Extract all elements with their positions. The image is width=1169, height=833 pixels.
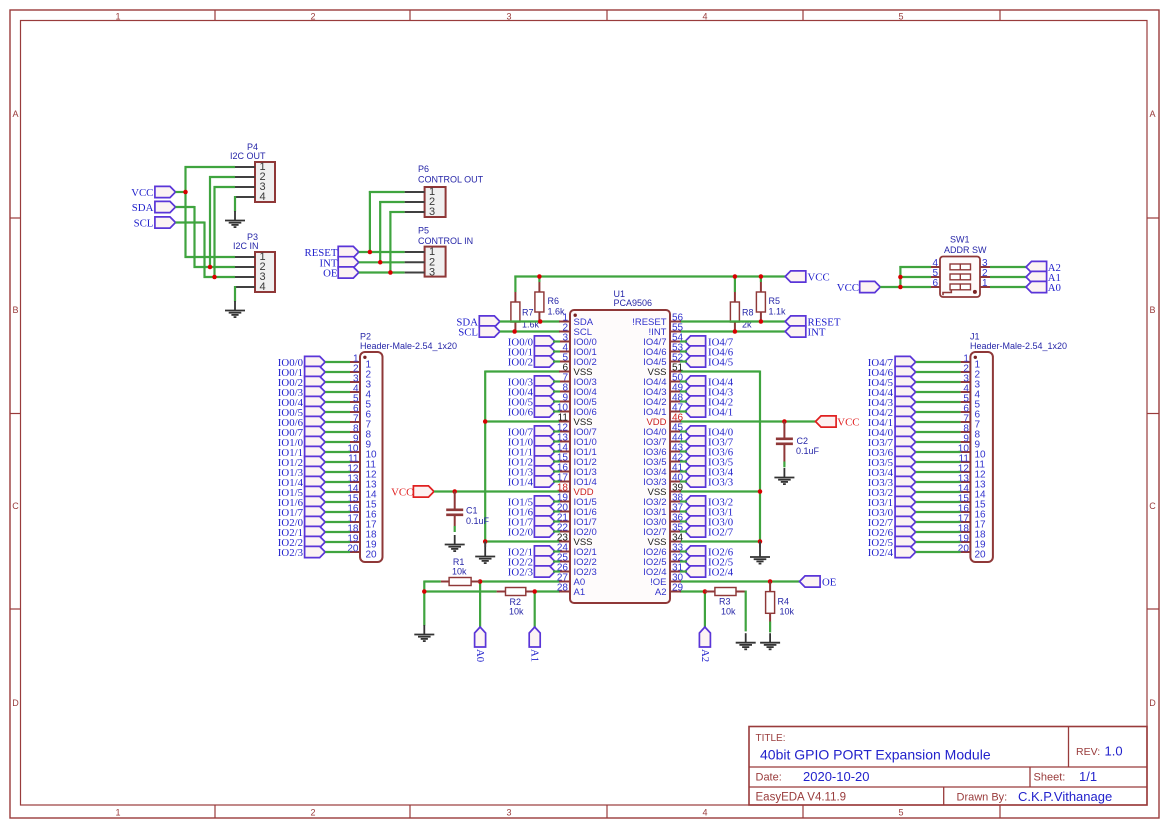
svg-text:2: 2	[310, 12, 315, 22]
net flag IO3/3 (J1)	[868, 476, 916, 489]
svg-text:4: 4	[702, 12, 707, 22]
svg-text:10k: 10k	[452, 567, 467, 577]
resistor R6 1.6k	[535, 282, 565, 322]
wire IO3/0	[916, 511, 961, 513]
ground under P3	[225, 301, 245, 317]
U1 pin 3 (IO0/0)	[559, 333, 597, 348]
svg-text:A2: A2	[655, 587, 667, 598]
U1 pin 5 (IO0/2)	[559, 353, 597, 368]
capacitor C2 0.1uF	[776, 422, 820, 462]
wire VCC to U1 pin18	[434, 490, 560, 492]
svg-text:3: 3	[429, 267, 435, 279]
U1 pin 45 (IO4/0)	[643, 423, 683, 438]
wire IO2/2	[325, 541, 350, 543]
svg-text:R8: R8	[742, 308, 754, 318]
junction VSS bus pin11	[483, 419, 488, 424]
P2 pin 12	[347, 464, 377, 481]
net flag IO3/5 (J1)	[868, 456, 916, 469]
svg-text:IO2/4: IO2/4	[708, 567, 734, 579]
wire IO0/7	[325, 431, 350, 433]
U1 pin 18 (VDD)	[557, 483, 594, 498]
U1 pin 9 (IO0/5)	[559, 393, 597, 408]
wire IO0/4	[553, 390, 560, 392]
ground under P4	[225, 211, 245, 227]
wire IO4/6	[916, 371, 961, 373]
J1 pin 16	[958, 504, 986, 521]
net flag IO1/4 (P2)	[278, 476, 325, 489]
svg-text:1: 1	[115, 808, 120, 818]
wire SW1 to A1	[990, 276, 1026, 278]
wire IO3/2	[680, 500, 687, 502]
junction R1-left/A1line	[422, 589, 427, 594]
U1 pin 17 (IO1/4)	[557, 473, 597, 488]
connector P6 CONTROL OUT	[418, 164, 484, 217]
wire IO2/2	[553, 560, 560, 562]
wire IO0/6	[325, 421, 350, 423]
U1 pin 20 (IO1/6)	[557, 503, 597, 518]
P4 pin 1	[235, 161, 266, 173]
wire IO1/7	[325, 511, 350, 513]
svg-text:INT: INT	[808, 327, 826, 339]
svg-text:A: A	[1149, 109, 1155, 119]
wire VCC net	[176, 166, 236, 258]
ground under C1	[445, 535, 465, 551]
svg-text:C.K.P.Vithanage: C.K.P.Vithanage	[1018, 789, 1112, 804]
svg-text:A1: A1	[529, 649, 541, 662]
U1 pin 36 (IO3/0)	[643, 513, 683, 528]
P4 pin 3	[235, 181, 266, 193]
wire IO4/4	[916, 391, 961, 393]
J1 pin 7	[961, 414, 981, 431]
net flag IO3/0 (J1)	[868, 506, 916, 519]
net flag IO4/6 (J1)	[868, 366, 916, 379]
wire IO2/6	[916, 531, 961, 533]
junction VSS bus pin23	[483, 539, 488, 544]
wire IO1/1	[325, 451, 350, 453]
net flag IO1/5 (P2)	[278, 486, 325, 499]
U1 pin 50 (IO4/4)	[643, 373, 683, 388]
net flag A2	[1026, 261, 1061, 274]
net flag IO4/1 (J1)	[868, 416, 916, 429]
junction VCC rail at R8	[733, 274, 738, 279]
net flag IO0/3 (P2)	[278, 386, 325, 399]
wire SDA to U1 pin1	[500, 320, 560, 322]
net flag A1	[1026, 271, 1061, 284]
U1 pin 16 (IO1/3)	[557, 463, 597, 478]
net flag IO1/5 (U1 left)	[508, 496, 555, 509]
U1 pin 53 (IO4/6)	[643, 343, 683, 358]
wire IO3/7	[680, 440, 687, 442]
net flag IO0/3 (U1 left)	[508, 376, 555, 389]
wire IO1/0	[325, 441, 350, 443]
wire OE net	[359, 211, 405, 274]
J1 pin 5	[961, 394, 981, 411]
IC U1 PCA9506	[570, 289, 670, 603]
net flag IO1/3 (U1 left)	[508, 466, 555, 479]
P3 pin 3	[235, 271, 266, 283]
net flag IO0/4 (P2)	[278, 396, 325, 409]
wire C2 to ground	[783, 462, 785, 468]
wire IO2/3	[553, 570, 560, 572]
svg-text:28: 28	[557, 583, 569, 594]
wire SW1 to A2	[990, 266, 1026, 268]
wire IO0/7	[553, 430, 560, 432]
svg-text:Drawn By:: Drawn By:	[957, 792, 1008, 804]
U1 pin 14 (IO1/1)	[557, 443, 597, 458]
wire IO1/5	[553, 500, 560, 502]
wire IO4/7	[680, 340, 687, 342]
junction VCC rail at R6	[537, 274, 542, 279]
net flag IO3/7 (J1)	[868, 436, 916, 449]
net flag IO0/0 (U1 left)	[508, 336, 555, 349]
wire IO0/6	[553, 410, 560, 412]
svg-text:SW1: SW1	[950, 235, 970, 245]
net flag IO2/2 (P2)	[278, 536, 325, 549]
net flag IO3/2 (U1 right)	[685, 496, 733, 509]
wire IO0/4	[325, 401, 350, 403]
net flag A0	[1026, 281, 1061, 294]
svg-text:5: 5	[898, 808, 903, 818]
svg-text:40bit GPIO PORT Expansion Modu: 40bit GPIO PORT Expansion Module	[760, 747, 991, 763]
U1 pin 49 (IO4/3)	[643, 383, 683, 398]
net flag IO0/7 (P2)	[278, 426, 325, 439]
wire IO4/3	[916, 401, 961, 403]
wire IO3/7	[916, 441, 961, 443]
net flag IO2/7 (J1)	[868, 516, 916, 529]
net flag IO3/0 (U1 right)	[685, 516, 733, 529]
net flag IO3/4 (U1 right)	[685, 466, 734, 479]
wire IO2/1	[325, 531, 350, 533]
wire SCL net	[176, 186, 236, 278]
J1 pin 10	[958, 444, 986, 461]
J1 pin 11	[959, 454, 986, 471]
SW1 pin 4	[921, 258, 940, 269]
net flag IO0/6 (U1 left)	[508, 406, 555, 419]
junction VCC	[183, 190, 188, 195]
net flag VCC (SW1)	[837, 281, 881, 294]
U1 pin 37 (IO3/1)	[643, 503, 683, 518]
P5 pin 1	[405, 246, 436, 258]
wire IO4/1	[680, 410, 687, 412]
wire IO2/5	[916, 541, 961, 543]
net flag IO2/0 (U1 left)	[508, 526, 555, 539]
svg-text:1/1: 1/1	[1079, 769, 1097, 784]
svg-text:IO4/1: IO4/1	[708, 407, 733, 419]
J1 pin 6	[961, 404, 981, 421]
wire IO3/4	[916, 471, 961, 473]
junction SW1 pin5	[898, 275, 903, 280]
svg-text:IO0/2: IO0/2	[508, 357, 533, 369]
svg-text:D: D	[1149, 698, 1156, 708]
svg-text:0.1uF: 0.1uF	[796, 446, 820, 456]
net flag IO0/0 (P2)	[278, 356, 325, 369]
junction A0/R1	[478, 579, 483, 584]
svg-text:IO4/5: IO4/5	[708, 357, 733, 369]
U1 pin 34 (VSS)	[647, 533, 683, 548]
wire IO2/0	[325, 521, 350, 523]
J1 pin 18	[958, 524, 986, 541]
U1 pin 11 (VSS)	[558, 413, 593, 428]
wire IO1/1	[553, 450, 560, 452]
U1 pin 38 (IO3/2)	[643, 493, 683, 508]
wire IO1/0	[553, 440, 560, 442]
net flag IO2/7 (U1 right)	[685, 526, 734, 539]
net flag OE (right)	[800, 576, 837, 589]
U1 pin 1 (SDA)	[559, 313, 594, 328]
net flag VCC (C2, red)	[816, 416, 860, 429]
svg-text:1: 1	[115, 12, 120, 22]
SW1 pin 6	[921, 278, 940, 289]
J1 pin 9	[961, 434, 981, 451]
net flag IO1/6 (U1 left)	[508, 506, 555, 519]
net flag IO2/5 (U1 right)	[685, 556, 733, 569]
wire IO1/6	[553, 510, 560, 512]
J1 pin 2	[961, 364, 981, 381]
wire RESET net	[359, 191, 405, 253]
net flag A1 (bottom)	[529, 627, 541, 662]
wire IO0/3	[553, 380, 560, 382]
connector P2 Header-Male-2.54_1x20	[360, 332, 457, 563]
P2 pin 13	[347, 474, 377, 491]
wire IO1/6	[325, 501, 350, 503]
net flag IO4/5 (J1)	[868, 376, 916, 389]
wire SW1 to A0	[990, 286, 1026, 288]
net flag IO1/1 (U1 left)	[508, 446, 555, 459]
U1 pin 30 (!OE)	[650, 573, 683, 588]
net flag IO4/1 (U1 right)	[685, 406, 733, 419]
svg-text:OE: OE	[323, 268, 338, 280]
svg-text:R2: R2	[510, 597, 522, 607]
wire RESET line	[680, 320, 785, 322]
junction A1/R2	[532, 589, 537, 594]
svg-text:PCA9506: PCA9506	[614, 298, 653, 308]
wire IO4/4	[680, 380, 687, 382]
wire P3 pin4 to ground	[234, 286, 236, 302]
wire VSS bus right	[680, 371, 761, 542]
net flag IO1/1 (P2)	[278, 446, 325, 459]
net flag IO2/2 (U1 left)	[508, 556, 555, 569]
net flag IO0/5 (P2)	[278, 406, 325, 419]
svg-text:6: 6	[932, 278, 938, 289]
P4 pin 4	[235, 191, 266, 203]
P3 pin 2	[235, 261, 266, 273]
J1 pin 3	[961, 374, 981, 391]
SW1 pin 3	[980, 258, 1000, 269]
wire IO4/2	[916, 411, 961, 413]
svg-text:C1: C1	[466, 506, 478, 516]
P2 pin 18	[347, 524, 377, 541]
net flag IO2/6 (U1 right)	[685, 546, 734, 559]
net flag IO1/2 (U1 left)	[508, 456, 555, 469]
P6 pin 3	[405, 206, 436, 218]
wire IO2/7	[916, 521, 961, 523]
svg-text:SCL: SCL	[458, 327, 478, 339]
P2 pin 20	[347, 544, 377, 561]
svg-text:3: 3	[429, 206, 435, 218]
wire IO0/5	[553, 400, 560, 402]
net flag IO4/4 (U1 right)	[685, 376, 734, 389]
wire IO4/5	[916, 381, 961, 383]
J1 pin 15	[958, 494, 986, 511]
net flag INT (right)	[785, 326, 826, 339]
J1 pin 17	[958, 514, 986, 531]
wire IO3/5	[916, 461, 961, 463]
svg-text:B: B	[1149, 305, 1155, 315]
net flag IO3/4 (J1)	[868, 466, 916, 479]
net flag IO4/6 (U1 right)	[685, 346, 734, 359]
net flag IO4/0 (U1 right)	[685, 426, 733, 439]
net flag IO0/7 (U1 left)	[508, 426, 555, 439]
svg-text:P2: P2	[360, 332, 371, 342]
svg-text:VCC: VCC	[837, 282, 859, 294]
wire IO2/1	[553, 550, 560, 552]
U1 pin 27 (A0)	[557, 573, 585, 588]
wire IO2/4	[680, 570, 687, 572]
P2 pin 9	[350, 434, 372, 451]
resistor R4 10k	[766, 582, 795, 622]
net flag IO3/6 (J1)	[868, 446, 916, 459]
P2 pin 11	[348, 454, 376, 471]
P2 pin 2	[350, 364, 372, 381]
connector J1 Header-Male-2.54_1x20	[970, 332, 1067, 563]
net flag IO3/2 (J1)	[868, 486, 916, 499]
svg-text:Header-Male-2.54_1x20: Header-Male-2.54_1x20	[970, 341, 1067, 351]
svg-text:R4: R4	[778, 597, 790, 607]
U1 pin 46 (VDD)	[646, 413, 683, 428]
net flag IO2/1 (P2)	[278, 526, 325, 539]
wire INT line	[680, 330, 785, 332]
svg-text:R7: R7	[522, 308, 534, 318]
svg-text:B: B	[12, 305, 18, 315]
U1 pin 40 (IO3/3)	[643, 473, 683, 488]
wire IO3/6	[680, 450, 687, 452]
wire IO4/0	[680, 430, 687, 432]
wire IO1/5	[325, 491, 350, 493]
net flag IO2/3 (U1 left)	[508, 566, 555, 579]
P5 pin 2	[405, 257, 436, 269]
U1 pin 2 (SCL)	[559, 323, 592, 338]
junction SDA/R6	[538, 319, 543, 324]
U1 pin 26 (IO2/3)	[557, 563, 597, 578]
connector P5 CONTROL IN	[418, 226, 473, 277]
wire IO3/0	[680, 520, 687, 522]
wire IO3/6	[916, 451, 961, 453]
svg-text:A2: A2	[699, 649, 711, 662]
net flag SCL (U1)	[458, 326, 500, 339]
svg-text:P5: P5	[418, 226, 429, 236]
junction A2/R3	[703, 589, 708, 594]
ground under C2	[774, 468, 794, 484]
J1 pin 1	[961, 354, 981, 371]
svg-text:OE: OE	[822, 577, 837, 589]
wire IO2/5	[680, 560, 687, 562]
wire IO3/5	[680, 460, 687, 462]
U1 pin 28 (A1)	[557, 583, 585, 598]
wire VCC rail	[514, 276, 785, 293]
svg-text:4: 4	[702, 808, 707, 818]
net flag IO0/2 (P2)	[278, 376, 325, 389]
svg-text:IO0/6: IO0/6	[508, 407, 534, 419]
SW1 pin 2	[980, 268, 1000, 279]
net flag VCC (C1, red)	[391, 486, 434, 499]
P3 pin 4	[235, 281, 266, 293]
net flag IO2/4 (J1)	[868, 546, 916, 559]
svg-text:10k: 10k	[780, 607, 795, 617]
ground under R3	[736, 633, 756, 649]
wire INT net	[359, 201, 405, 263]
U1 pin 24 (IO2/1)	[557, 543, 597, 558]
net flag IO0/1 (U1 left)	[508, 346, 555, 359]
junction INT	[378, 260, 383, 265]
wire IO1/4	[553, 480, 560, 482]
P2 pin 4	[350, 384, 372, 401]
net flag IO0/1 (P2)	[278, 366, 325, 379]
net flag IO2/3 (P2)	[278, 546, 325, 559]
svg-text:4: 4	[260, 281, 266, 293]
U1 pin 33 (IO2/6)	[643, 543, 683, 558]
svg-text:A: A	[12, 109, 18, 119]
net flag IO2/4 (U1 right)	[685, 566, 734, 579]
net flag RESET	[305, 246, 359, 259]
svg-text:2020-10-20: 2020-10-20	[803, 769, 870, 784]
wire IO3/3	[916, 481, 961, 483]
svg-text:IO2/0: IO2/0	[508, 527, 533, 539]
U1 pin 6 (VSS)	[559, 363, 593, 378]
svg-text:0.1uF: 0.1uF	[466, 516, 490, 526]
wire R1 left to ground net	[423, 581, 496, 626]
svg-text:20: 20	[366, 550, 378, 561]
net flag IO2/5 (J1)	[868, 536, 916, 549]
U1 pin 4 (IO0/1)	[559, 343, 597, 358]
wire R4 to ground	[769, 622, 771, 633]
junction VCC/C2	[782, 419, 787, 424]
svg-text:VCC: VCC	[391, 487, 413, 499]
U1 pin 43 (IO3/6)	[643, 443, 683, 458]
svg-text:R6: R6	[548, 296, 560, 306]
U1 pin 56 (!RESET)	[632, 313, 683, 328]
J1 pin 12	[958, 464, 986, 481]
svg-text:CONTROL IN: CONTROL IN	[418, 236, 473, 246]
junction RESET/R5	[759, 319, 764, 324]
wire IO4/6	[680, 350, 687, 352]
wire IO0/1	[553, 350, 560, 352]
net flag IO1/3 (P2)	[278, 466, 325, 479]
net flag IO1/0 (U1 left)	[508, 436, 555, 449]
svg-text:A0: A0	[474, 649, 486, 662]
J1 pin 19	[958, 534, 986, 551]
P2 pin 17	[347, 514, 377, 531]
U1 pin 35 (IO2/7)	[643, 523, 683, 538]
junction SW1 pin6	[898, 285, 903, 290]
svg-text:R3: R3	[719, 597, 731, 607]
svg-text:10k: 10k	[509, 607, 524, 617]
svg-text:10k: 10k	[721, 607, 736, 617]
svg-text:P6: P6	[418, 164, 429, 174]
wire IO0/2	[325, 381, 350, 383]
wire IO4/3	[680, 390, 687, 392]
svg-text:20: 20	[975, 550, 987, 561]
switch SW1 ADDR SW	[940, 235, 987, 298]
net flag IO1/0 (P2)	[278, 436, 325, 449]
U1 pin 39 (VSS)	[647, 483, 683, 498]
net flag IO4/7 (U1 right)	[685, 336, 734, 349]
svg-text:5: 5	[898, 12, 903, 22]
ground VSS bus left	[475, 542, 495, 564]
U1 pin 55 (!INT)	[649, 323, 684, 338]
net flag A2 (bottom)	[699, 627, 711, 662]
svg-text:Date:: Date:	[756, 772, 782, 784]
P4 pin 2	[235, 171, 266, 183]
